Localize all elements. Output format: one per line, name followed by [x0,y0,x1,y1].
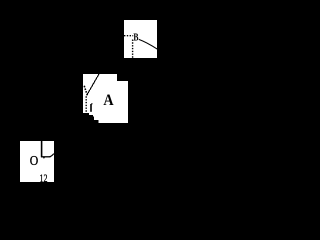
svg-text:A: A [103,92,114,109]
label box B (white background) [124,20,157,58]
trajectory segment after B [139,39,158,49]
incline wedge (black cut over A boxes corner) [80,113,99,123]
axis line at O (horizontal) [41,156,51,158]
arrow blob on axis [43,157,45,159]
dotted guide line to B (horizontal) [124,35,133,37]
dotted guide line from B (vertical) [132,40,134,59]
axis line at O (vertical) [41,141,43,157]
label box O (white background) [20,141,54,182]
trajectory segment at A (solid diagonal) [87,73,100,95]
label box A upper (white background) [83,74,117,115]
tick bar below A [90,104,92,112]
svg-text:12: 12 [40,171,48,185]
label box A lower (white background) [93,81,128,123]
svg-text:O: O [30,154,39,169]
dotted guide line below A (vertical) [85,96,87,113]
svg-text:B: B [133,32,138,43]
dotted branch at A [84,86,87,96]
trajectory start curve near O [50,154,54,157]
